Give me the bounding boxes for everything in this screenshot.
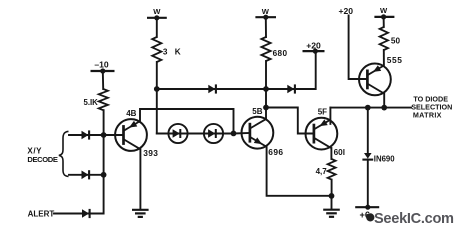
wire to diode selection matrix xyxy=(330,107,411,109)
diode ALERT CR3 xyxy=(82,209,90,218)
svg-text:393: 393 xyxy=(143,148,158,158)
wire W2 to 680 xyxy=(265,17,267,37)
junction 3K rail xyxy=(154,86,160,92)
junction 5B base node xyxy=(231,131,237,137)
wire to IN690 xyxy=(367,108,369,153)
transistor 5F (601) xyxy=(306,118,338,150)
wire 5B emitter to common node xyxy=(267,147,332,196)
wire 555 collector down xyxy=(383,94,385,108)
junction IN690 branch xyxy=(365,105,371,111)
transistor 5B (696) xyxy=(242,117,274,149)
junction X/Y line 2 xyxy=(101,172,107,178)
diode rail right CR5 xyxy=(287,84,295,93)
transistor 4B (393) xyxy=(115,119,147,151)
junction 5B collector branch xyxy=(263,105,269,111)
junction W2 terminal xyxy=(263,15,268,20)
svg-text:5F: 5F xyxy=(318,108,327,117)
svg-text:ALERT: ALERT xyxy=(28,210,55,219)
wire 50 to 555 emitter xyxy=(383,50,385,66)
wire +20 to 555 base xyxy=(349,16,368,80)
svg-text:–10: –10 xyxy=(94,59,109,69)
wire ALERT line and input bus vertical xyxy=(54,110,104,213)
wire diode row to 5B base xyxy=(157,132,250,135)
wire 5B collector branch to 5F base xyxy=(266,108,314,134)
resistor 5.1K xyxy=(99,89,108,110)
circled diode CR7 xyxy=(204,124,223,143)
wire W1 to 3K xyxy=(156,18,158,37)
brace X/Y decode xyxy=(59,131,69,176)
resistor 680 xyxy=(261,37,270,61)
wire bias rail to +20 xyxy=(157,51,316,89)
svg-text:K: K xyxy=(175,48,181,57)
junction emitter resistor ground node xyxy=(329,193,335,199)
svg-text:W: W xyxy=(153,7,161,16)
resistor 4.7 xyxy=(328,159,336,180)
resistor 3K xyxy=(152,37,161,62)
resistor 50 xyxy=(380,27,388,50)
svg-text:IN690: IN690 xyxy=(374,155,395,164)
ground under 4.7 xyxy=(323,210,340,217)
terminal bar W1 xyxy=(147,17,167,19)
wire 5F collector to 4.7 xyxy=(330,148,332,159)
terminal bar W2 xyxy=(255,16,276,18)
junction 555 collector node xyxy=(381,105,387,111)
junction +6 terminal xyxy=(365,205,370,210)
diode X/Y top CR1 xyxy=(82,130,90,139)
svg-text:MATRIX: MATRIX xyxy=(413,110,442,119)
svg-text:4B: 4B xyxy=(126,109,136,118)
svg-text:3: 3 xyxy=(163,48,168,57)
svg-text:X/Y: X/Y xyxy=(27,146,42,155)
svg-text:696: 696 xyxy=(268,147,283,157)
wire X/Y line 1 to base of 4B xyxy=(69,134,124,136)
svg-text:W: W xyxy=(380,6,388,15)
diode rail left CR4 xyxy=(208,84,216,93)
wire 3K down through rail to diode row xyxy=(156,62,158,134)
svg-text:5.IK: 5.IK xyxy=(84,98,99,107)
svg-text:+20: +20 xyxy=(306,40,321,50)
wire 4.7 to common node xyxy=(331,180,333,196)
transistor 555 xyxy=(359,64,391,96)
svg-text:5B: 5B xyxy=(252,107,262,116)
watermark bullet xyxy=(366,213,374,221)
svg-text:SeekIC.com: SeekIC.com xyxy=(374,211,454,227)
wire 4B emitter bypass to 5B base node xyxy=(140,109,234,133)
junction W3 terminal xyxy=(381,14,386,19)
wire 5F emitter up to output line xyxy=(329,108,331,124)
svg-text:60l: 60l xyxy=(334,148,345,157)
svg-text:50: 50 xyxy=(391,37,401,46)
wire IN690 to +6 xyxy=(367,160,369,208)
junction +20 left terminal xyxy=(313,49,318,54)
wire X/Y line 2 xyxy=(69,174,104,176)
junction -10 terminal xyxy=(100,68,105,73)
diode IN690 xyxy=(362,153,373,160)
terminal bar W3 xyxy=(374,16,394,18)
wire node to ground xyxy=(331,196,333,209)
diode X/Y bottom CR2 xyxy=(82,170,90,179)
svg-text:555: 555 xyxy=(387,55,403,65)
junction 680 rail xyxy=(263,86,269,92)
ground under 4B xyxy=(132,210,149,217)
junction X/Y line 1 xyxy=(101,132,107,138)
junction W1 terminal xyxy=(154,15,159,20)
terminal bar -10 xyxy=(91,70,115,72)
circled diode CR6 xyxy=(168,124,187,143)
wire W3 to 50 xyxy=(383,17,385,27)
svg-text:680: 680 xyxy=(273,49,288,58)
wire -10 to 5.1K xyxy=(102,71,104,89)
terminal bar +6 xyxy=(355,206,379,208)
svg-text:DECODE: DECODE xyxy=(27,155,57,164)
wire 680 to 5B collector xyxy=(265,61,267,119)
svg-text:4,7: 4,7 xyxy=(316,167,328,176)
wire 4B collector to ground xyxy=(139,149,141,209)
svg-text:+20: +20 xyxy=(339,6,354,16)
terminal bar +20 left xyxy=(303,50,325,52)
